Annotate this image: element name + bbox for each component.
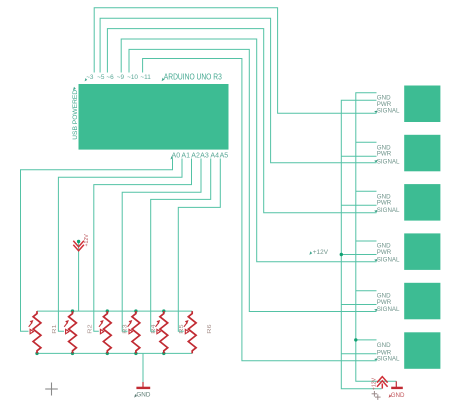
pin A0 mark <box>171 156 174 159</box>
svg-text:PWR: PWR <box>377 150 392 157</box>
wire pin ~6 to J3 SIGNAL <box>107 29 376 213</box>
connector J6 SIGNAL pin mark <box>374 358 377 361</box>
potentiometer R1 zigzag <box>33 311 41 353</box>
wire J4 GND stub <box>356 240 377 242</box>
junction J4 PWR bus <box>340 253 343 256</box>
origin cross right b <box>375 394 381 400</box>
potentiometer R3 wiper <box>100 329 103 333</box>
svg-text:R1: R1 <box>52 324 58 333</box>
junction R5 top <box>162 309 165 312</box>
wire bottom rail to GND symbol <box>142 353 144 382</box>
svg-text:GND: GND <box>391 392 405 399</box>
junction R5 bottom <box>162 352 165 355</box>
wire pin A2 to R3 wiper <box>94 159 192 332</box>
potentiometer R1 adjust arrow <box>29 323 32 327</box>
svg-text:SIGNAL: SIGNAL <box>377 356 400 363</box>
svg-text:SIGNAL: SIGNAL <box>377 257 400 264</box>
svg-text:~11: ~11 <box>140 74 151 81</box>
wire J6 PWR stub <box>341 353 376 355</box>
svg-text:SIGNAL: SIGNAL <box>377 108 400 115</box>
net label +12V mark <box>309 251 312 255</box>
potentiometer R3 zigzag <box>103 311 111 353</box>
svg-text:ARDUINO UNO R3: ARDUINO UNO R3 <box>164 72 222 81</box>
svg-text:+12V: +12V <box>372 377 378 390</box>
pin ~3 mark <box>85 78 88 81</box>
potentiometer R4 zigzag <box>132 311 140 353</box>
connector J3 body <box>404 184 440 221</box>
svg-text:GND: GND <box>377 342 391 349</box>
junction +12V tap <box>77 240 80 243</box>
svg-text:A5: A5 <box>220 152 229 159</box>
svg-text:A1: A1 <box>181 152 190 159</box>
origin cross bottom left <box>45 383 58 396</box>
connector J2 SIGNAL pin mark <box>374 160 377 163</box>
arduino U1 body <box>79 84 229 150</box>
potentiometer R5 wiper <box>157 329 160 333</box>
svg-text:SIGNAL: SIGNAL <box>377 158 400 165</box>
connector J5 SIGNAL pin mark <box>374 309 377 312</box>
svg-text:~5: ~5 <box>97 74 105 81</box>
wire pin ~10 to J5 SIGNAL <box>129 49 377 311</box>
svg-text:A2: A2 <box>191 152 200 159</box>
wire resistor bottom rail GND <box>37 352 192 354</box>
wire pin ~5 to J2 SIGNAL <box>100 18 376 163</box>
svg-text:~3: ~3 <box>86 74 94 81</box>
potentiometer R6 zigzag <box>188 311 196 353</box>
wire pin A1 to R2 wiper <box>58 159 182 332</box>
junction J6 GND bus <box>354 338 357 341</box>
svg-text:A0: A0 <box>172 152 181 159</box>
wire J3 GND stub <box>356 190 377 192</box>
svg-text:R3: R3 <box>122 324 128 333</box>
potentiometer R5 zigzag <box>160 311 168 353</box>
svg-text:SIGNAL: SIGNAL <box>377 306 400 313</box>
svg-text:PWR: PWR <box>377 200 392 207</box>
junction R3 bottom <box>106 352 109 355</box>
connector J1 SIGNAL pin mark <box>374 111 377 114</box>
svg-text:A4: A4 <box>210 152 219 159</box>
ground GND symbol bottom center <box>136 382 150 388</box>
wire pin ~3 to J1 SIGNAL <box>94 8 376 114</box>
wire J4 PWR stub <box>341 254 376 256</box>
svg-text:R5: R5 <box>179 324 185 333</box>
wire pin A0 to R1 wiper <box>21 159 173 332</box>
svg-text:R2: R2 <box>88 324 94 333</box>
supply +12V arrow left (pointing down) <box>73 241 84 251</box>
wire J3 PWR stub <box>341 204 376 206</box>
origin cross right a <box>372 391 378 397</box>
svg-text:~10: ~10 <box>127 74 138 81</box>
wire resistor top rail +12V <box>37 310 192 312</box>
ground GND symbol bottom right <box>391 381 403 388</box>
arduino U1 name pin mark <box>162 78 165 82</box>
wire pin A5 to R6 wiper <box>178 159 220 332</box>
connector J1 body <box>404 86 440 123</box>
svg-text:+12V: +12V <box>84 234 90 247</box>
wire PWR bus +12V right <box>341 100 381 389</box>
potentiometer R3 adjust arrow <box>99 323 102 327</box>
svg-text:PWR: PWR <box>377 249 392 256</box>
wire J6 GND stub <box>356 339 377 341</box>
wire pin ~9 to J4 SIGNAL <box>121 39 376 262</box>
potentiometer R2 adjust arrow <box>64 323 67 327</box>
ground GND bottom right mark <box>389 394 392 398</box>
potentiometer R4 wiper <box>129 329 132 333</box>
junction R2 top <box>71 309 74 312</box>
svg-text:~9: ~9 <box>117 74 125 81</box>
svg-text:R6: R6 <box>207 324 213 333</box>
connector J4 SIGNAL pin mark <box>374 259 377 262</box>
arduino U1 usb pin mark <box>73 87 76 91</box>
wire J2 GND stub <box>356 141 377 143</box>
svg-text:A3: A3 <box>200 152 209 159</box>
svg-text:~6: ~6 <box>106 74 114 81</box>
connector J4 body <box>404 233 440 270</box>
junction R1 bottom <box>35 352 38 355</box>
potentiometer R4 adjust arrow <box>128 323 131 327</box>
connector J2 body <box>404 135 440 172</box>
wire pin A3 to R4 wiper <box>122 159 201 332</box>
wire +12V supply to resistor top rail <box>78 242 80 312</box>
junction R3 top <box>106 309 109 312</box>
svg-text:PWR: PWR <box>377 299 392 306</box>
potentiometer R1 wiper <box>30 329 33 333</box>
svg-text:USB POWERED: USB POWERED <box>72 90 79 140</box>
svg-text:+12V: +12V <box>313 249 329 256</box>
wire J5 PWR stub <box>341 304 376 306</box>
wire J5 GND stub <box>356 290 377 292</box>
ground GND bottom center mark <box>134 394 137 398</box>
wire J2 PWR stub <box>341 155 376 157</box>
potentiometer R5 adjust arrow <box>156 323 159 327</box>
junction R4 top <box>134 309 137 312</box>
wire pin ~11 to J6 SIGNAL <box>143 59 377 361</box>
potentiometer R6 adjust arrow <box>184 323 187 327</box>
connector J3 SIGNAL pin mark <box>374 210 377 213</box>
junction R4 bottom <box>134 352 137 355</box>
svg-text:SIGNAL: SIGNAL <box>377 207 400 214</box>
potentiometer R2 zigzag <box>69 311 77 353</box>
potentiometer R6 wiper <box>185 329 188 333</box>
svg-text:GND: GND <box>136 392 150 399</box>
junction R2 bottom <box>71 352 74 355</box>
connector J5 body <box>404 283 440 320</box>
wire pin A4 to R5 wiper <box>151 159 211 332</box>
svg-text:R4: R4 <box>151 323 157 333</box>
supply +12V arrow right (pointing up) <box>377 377 388 389</box>
potentiometer R2 wiper <box>66 329 69 333</box>
junction dots <box>35 240 357 355</box>
wire GND bus right <box>356 93 397 382</box>
connector J6 body <box>404 332 440 369</box>
